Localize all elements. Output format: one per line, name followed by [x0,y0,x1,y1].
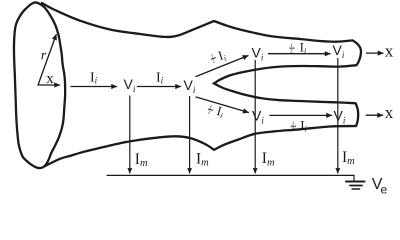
svg-text:Im: Im [262,150,275,168]
half I_i arrow along lower branch [270,114,332,116]
axial current arrow I_i 2 [138,86,181,88]
svg-text:Ii: Ii [90,71,98,86]
svg-text:Vi: Vi [252,108,264,126]
x axis arrow lower branch [366,114,382,116]
svg-text:Im: Im [196,151,209,169]
svg-text:x: x [385,103,394,122]
half I_i arrow along upper branch [269,53,331,55]
svg-text:Vi: Vi [184,77,196,95]
membrane current wire I_m 4 [337,59,339,174]
radius arrow r inside ellipse [38,35,56,85]
svg-text:2: 2 [212,58,217,65]
label half I_i on lower diagonal [206,101,225,121]
svg-text:2: 2 [290,49,293,55]
x axis arrow upper branch [367,52,383,54]
soma ellipse (cut end of cable) [14,2,65,168]
svg-text:Vi: Vi [124,76,136,94]
x arrow inside ellipse [39,84,60,86]
svg-text:Vi: Vi [334,108,346,126]
svg-text:Ii: Ii [300,40,307,56]
ground [353,175,355,181]
svg-text:x: x [46,71,54,87]
half I_i diagonal arrow to lower branch [196,97,248,112]
label half I_i on upper diagonal [208,47,227,67]
svg-text:2: 2 [291,127,294,133]
membrane current wire I_m 1 [129,96,131,173]
svg-text:Ii: Ii [216,47,227,64]
extracellular line V_e [107,174,354,176]
svg-text:Ve: Ve [372,176,388,197]
membrane current wire I_m 2 [189,97,191,174]
svg-text:Im: Im [135,151,148,169]
svg-text:Ii: Ii [300,118,307,134]
svg-text:r: r [41,48,47,63]
svg-text:2: 2 [207,109,211,116]
svg-text:x: x [385,41,394,60]
svg-text:Vi: Vi [252,45,264,63]
membrane current wire I_m 3 [254,61,256,174]
label half I_i on upper branch [289,40,306,56]
svg-text:Ii: Ii [156,71,164,86]
svg-text:Im: Im [342,149,355,167]
label half I_i on lower branch [291,118,307,134]
dendrite horn outline: top edge, upper branch + cap, notch, lower branch + cap, bottom edge [42,3,361,167]
half I_i diagonal arrow to upper branch [196,56,248,77]
svg-text:Vi: Vi [333,42,345,60]
axial current arrow I_i 1 [71,86,117,88]
